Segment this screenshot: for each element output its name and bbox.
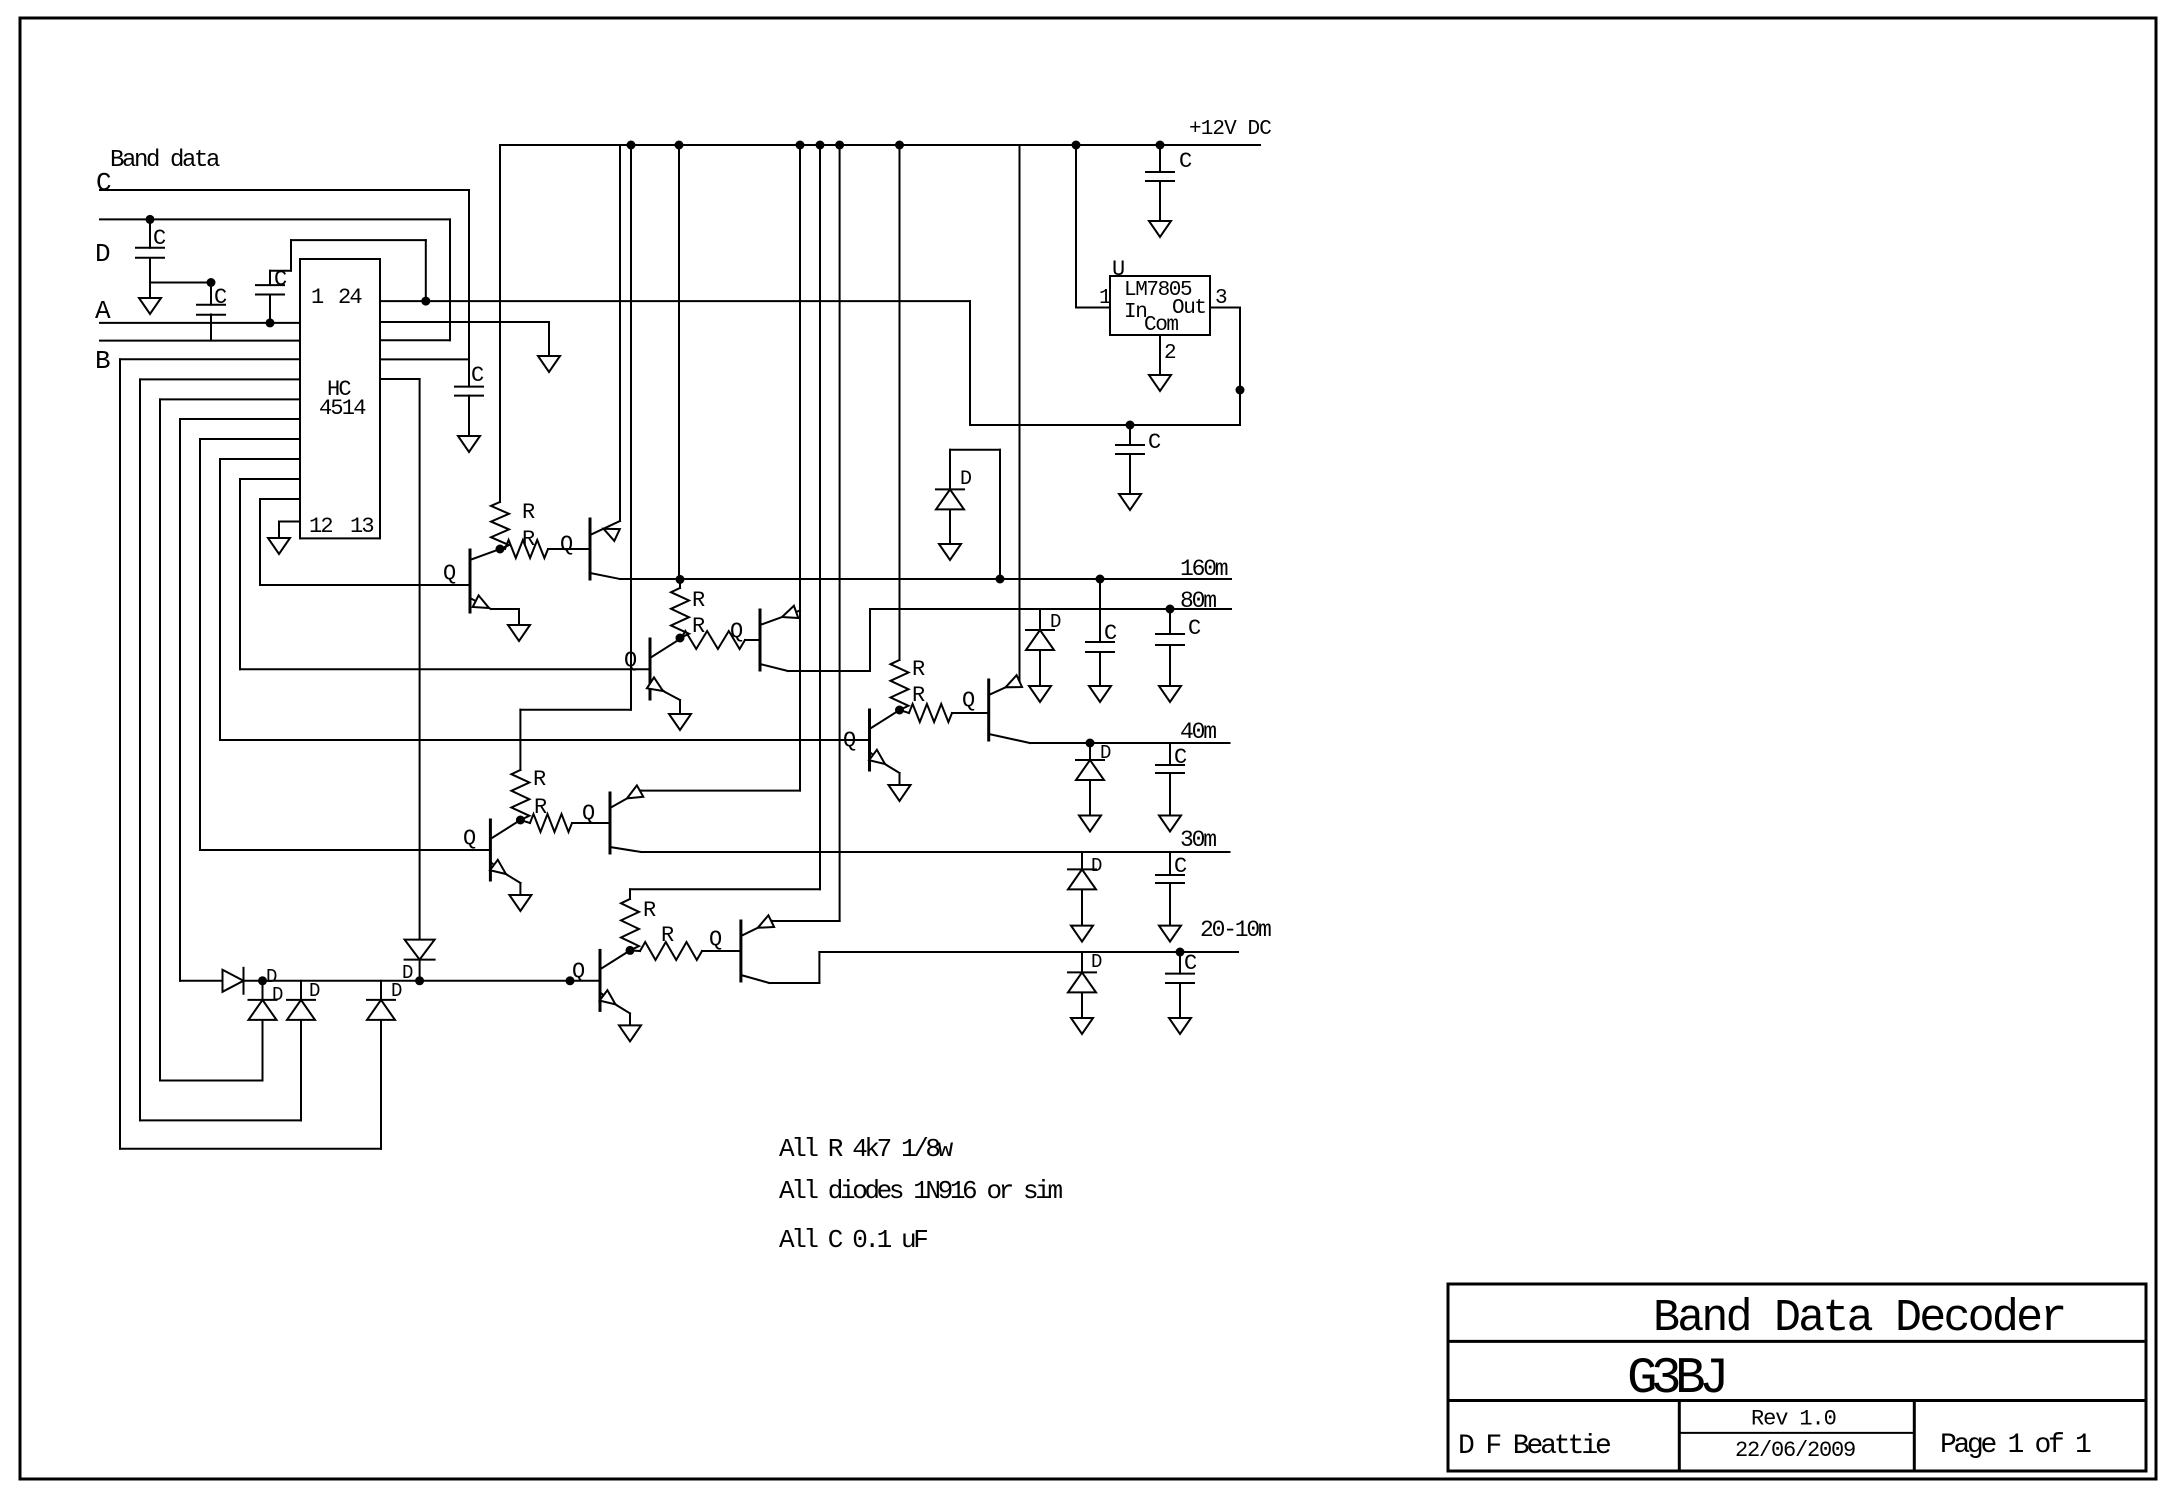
svg-text:C: C xyxy=(1174,854,1187,879)
svg-text:D: D xyxy=(95,239,111,269)
svg-text:R: R xyxy=(661,923,674,948)
svg-text:20-10m: 20-10m xyxy=(1200,917,1271,943)
svg-text:+12V DC: +12V DC xyxy=(1189,118,1271,141)
svg-text:Q: Q xyxy=(582,801,595,826)
svg-text:All diodes 1N916 or sim: All diodes 1N916 or sim xyxy=(779,1176,1062,1206)
svg-text:C: C xyxy=(1174,745,1187,770)
svg-text:Page 1 of 1: Page 1 of 1 xyxy=(1940,1430,2091,1461)
svg-text:22/06/2009: 22/06/2009 xyxy=(1735,1438,1855,1463)
svg-text:R: R xyxy=(522,527,535,552)
svg-text:D: D xyxy=(391,980,402,1002)
svg-text:Rev 1.0: Rev 1.0 xyxy=(1751,1407,1836,1432)
svg-text:Band data: Band data xyxy=(110,147,220,174)
svg-text:160m: 160m xyxy=(1180,556,1228,582)
svg-text:Q: Q xyxy=(709,927,722,952)
svg-text:C: C xyxy=(274,267,287,292)
svg-text:Q: Q xyxy=(730,619,743,644)
svg-text:B: B xyxy=(95,346,111,376)
svg-text:12: 12 xyxy=(309,514,332,539)
svg-text:C: C xyxy=(1188,616,1201,641)
svg-text:C: C xyxy=(1104,621,1117,646)
svg-text:Q: Q xyxy=(463,826,476,851)
svg-text:R: R xyxy=(533,767,546,792)
svg-text:R: R xyxy=(522,500,535,525)
svg-text:A: A xyxy=(95,296,111,326)
svg-text:C: C xyxy=(96,168,112,198)
svg-text:C: C xyxy=(471,363,484,388)
svg-text:1: 1 xyxy=(1099,287,1112,310)
svg-text:D: D xyxy=(272,984,283,1006)
svg-text:13: 13 xyxy=(350,514,373,539)
svg-text:All R 4k7 1/8w: All R 4k7 1/8w xyxy=(779,1134,954,1164)
svg-text:R: R xyxy=(643,898,656,923)
svg-text:R: R xyxy=(912,657,925,682)
svg-text:Band Data Decoder: Band Data Decoder xyxy=(1653,1293,2064,1344)
svg-text:1: 1 xyxy=(311,285,324,310)
svg-text:Q: Q xyxy=(962,688,975,713)
svg-text:R: R xyxy=(912,683,925,708)
svg-text:D: D xyxy=(1091,951,1102,973)
svg-text:D: D xyxy=(1091,855,1102,877)
svg-text:Com: Com xyxy=(1144,314,1178,337)
svg-text:Q: Q xyxy=(560,532,573,557)
svg-text:D: D xyxy=(402,962,413,984)
svg-text:D: D xyxy=(1100,742,1111,764)
svg-text:D: D xyxy=(309,980,320,1002)
svg-text:Q: Q xyxy=(443,561,456,586)
svg-text:All C 0.1 uF: All C 0.1 uF xyxy=(779,1225,927,1255)
svg-text:R: R xyxy=(692,614,705,639)
svg-text:C: C xyxy=(1184,951,1197,976)
svg-text:3: 3 xyxy=(1215,287,1228,310)
svg-text:Q: Q xyxy=(624,648,637,673)
svg-text:C: C xyxy=(153,226,166,251)
svg-text:D F Beattie: D F Beattie xyxy=(1458,1431,1610,1462)
svg-text:Q: Q xyxy=(843,728,856,753)
svg-text:D: D xyxy=(1050,611,1061,633)
svg-text:G3BJ: G3BJ xyxy=(1627,1351,1724,1408)
svg-text:30m: 30m xyxy=(1180,827,1216,853)
svg-text:C: C xyxy=(1148,430,1161,455)
svg-text:80m: 80m xyxy=(1180,588,1216,614)
svg-text:D: D xyxy=(960,468,972,491)
svg-text:Q: Q xyxy=(572,959,585,984)
svg-text:2: 2 xyxy=(1164,342,1177,365)
svg-text:C: C xyxy=(214,285,227,310)
svg-text:40m: 40m xyxy=(1180,719,1216,745)
svg-text:R: R xyxy=(692,588,705,613)
svg-text:C: C xyxy=(1179,149,1192,174)
svg-text:4514: 4514 xyxy=(319,396,366,421)
svg-text:24: 24 xyxy=(338,285,362,310)
svg-text:R: R xyxy=(534,795,547,820)
